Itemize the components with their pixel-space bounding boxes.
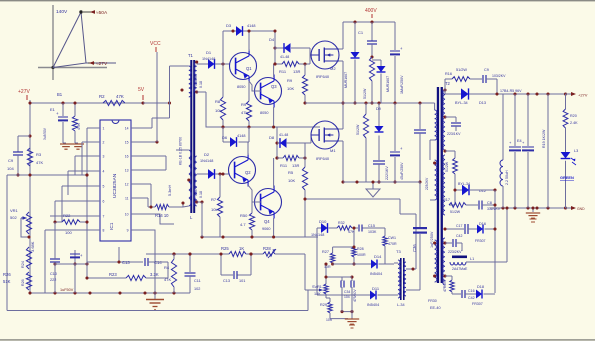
IC left pin wires	[87, 127, 92, 129]
svg-text:51K: 51K	[3, 279, 11, 284]
capacitor C snub lower	[445, 242, 452, 244]
resistor 51/2W upper	[369, 57, 374, 81]
capacitor electrolytic 1MuF/250V upper	[394, 22, 396, 50]
ground below E1	[60, 143, 72, 145]
T2 lower left winding	[435, 240, 437, 282]
output rail wire +17V	[445, 93, 566, 95]
svg-text:C11: C11	[194, 279, 201, 283]
resistor R2 47K	[103, 100, 125, 105]
diode D4 4148 pointing left	[284, 43, 291, 53]
capacitor E1 3u3/50V	[62, 103, 64, 116]
transistor Q2 8050	[229, 157, 256, 184]
svg-text:R8: R8	[215, 99, 221, 104]
svg-text:223/2KV: 223/2KV	[448, 250, 462, 254]
svg-text:104: 104	[7, 166, 14, 171]
capacitor C34 104	[326, 276, 342, 278]
svg-text:R2: R2	[99, 94, 105, 99]
resistor CW1 470R	[384, 228, 386, 236]
capacitor C1	[371, 22, 373, 41]
svg-text:D6: D6	[222, 135, 228, 140]
capacitor C24 223/1KV	[445, 116, 456, 118]
svg-text:4148: 4148	[247, 24, 255, 28]
diode D upper2 MUR1607	[372, 59, 381, 61]
svg-text:10k: 10k	[215, 108, 221, 113]
svg-text:10R: 10R	[324, 265, 331, 269]
wire outer feedback loop left	[6, 175, 8, 311]
svg-text:470R: 470R	[388, 242, 397, 246]
svg-text:3: 3	[103, 155, 105, 159]
svg-text:R9: R9	[241, 102, 247, 107]
svg-text:1u070: 1u070	[194, 76, 198, 86]
svg-text:D16: D16	[479, 222, 486, 226]
diode D2 1N4148	[202, 173, 208, 175]
T3 left winding	[398, 260, 400, 298]
svg-text:10k: 10k	[211, 207, 217, 212]
svg-text:T3: T3	[396, 249, 401, 254]
svg-text:223/2KV: 223/2KV	[425, 177, 429, 190]
svg-text:51/2W: 51/2W	[356, 124, 360, 135]
svg-text:1N4148: 1N4148	[200, 159, 213, 163]
resistor R22 100	[55, 221, 62, 223]
M2 source down	[339, 60, 343, 62]
svg-text:C8: C8	[487, 201, 492, 205]
svg-text:3.68K: 3.68K	[30, 241, 35, 252]
wire Q4 collector	[273, 158, 275, 188]
svg-text:8050: 8050	[237, 85, 245, 89]
T3 right winding	[404, 262, 406, 296]
capacitor C2 103/1KV column	[419, 103, 421, 129]
svg-text:R26: R26	[3, 272, 11, 277]
capacitor C36 1uF/250V	[419, 182, 421, 227]
svg-text:101: 101	[239, 279, 245, 283]
svg-text:+27V: +27V	[578, 93, 588, 98]
svg-text:1N4148: 1N4148	[311, 233, 324, 237]
svg-text:11: 11	[125, 197, 129, 201]
svg-text:D14: D14	[374, 254, 382, 259]
capacitor C8 332/2KV	[478, 201, 480, 210]
resistor R7 10k	[218, 172, 221, 175]
svg-text:E1: E1	[50, 107, 56, 112]
wire +27V to R2 horizontal	[30, 102, 143, 104]
svg-text:B1: B1	[57, 92, 63, 97]
resistor R23 3.3K	[86, 262, 88, 278]
resistor 51/2W lower	[365, 103, 367, 114]
svg-text:47K: 47K	[36, 160, 43, 165]
graph peak dot	[79, 10, 82, 13]
svg-text:100: 100	[65, 230, 72, 235]
svg-text:R22: R22	[63, 213, 71, 218]
svg-text:C16: C16	[468, 289, 475, 293]
svg-text:502: 502	[10, 215, 17, 220]
svg-text:4148: 4148	[237, 134, 245, 138]
transistor Q4 9060	[255, 189, 282, 216]
ground at bottom rail	[154, 293, 156, 300]
wire Q1 emitter to Q3 base	[249, 81, 261, 91]
resistor R4 47K	[172, 252, 175, 255]
transistor Q1 8050	[230, 53, 257, 80]
wire T3 right lower to C36	[406, 289, 420, 291]
svg-text:IN5404: IN5404	[370, 272, 382, 276]
svg-text:R23: R23	[109, 272, 117, 277]
diode D13 BYL-34	[461, 88, 469, 99]
svg-text:D1: D1	[206, 50, 212, 55]
resistor R10 10K	[304, 64, 306, 75]
svg-text:L1: L1	[470, 257, 474, 261]
svg-text:C13: C13	[122, 260, 130, 265]
resistor R18 51/2W	[453, 158, 458, 174]
svg-text:≈50A: ≈50A	[96, 10, 108, 16]
svg-text:R16: R16	[445, 72, 452, 76]
lower mid rail wire y182	[343, 181, 420, 183]
resistor R27 10R	[332, 247, 334, 253]
transformer T2 core	[437, 87, 439, 283]
svg-text:0.18: 0.18	[199, 191, 203, 198]
IC left pins	[92, 127, 100, 129]
svg-text:5.3mH: 5.3mH	[168, 185, 172, 196]
svg-text:R24: R24	[21, 261, 25, 268]
T1 secondary winding right bottom	[194, 156, 196, 206]
svg-text:2: 2	[103, 141, 105, 145]
wire top rail corner down to D4	[273, 46, 276, 49]
svg-text:51/2W: 51/2W	[450, 210, 461, 214]
svg-text:47k: 47k	[241, 110, 247, 115]
resistor R3 47K on main rail	[28, 134, 31, 137]
capacitor C9 104 branch	[18, 135, 30, 137]
resistor 3.68K	[26, 247, 31, 269]
svg-text:9060: 9060	[262, 227, 270, 231]
svg-text:13R: 13R	[292, 163, 299, 168]
svg-text:+27V: +27V	[18, 89, 30, 95]
wire Q2 collector	[247, 142, 249, 155]
resistor R17 51/2W	[454, 190, 456, 198]
diode D9 MUR1607 lower	[378, 103, 380, 126]
svg-text:7: 7	[103, 215, 105, 219]
graph diagonal trace	[53, 12, 81, 68]
svg-text:C17: C17	[456, 224, 462, 228]
svg-text:R14 10: R14 10	[155, 213, 169, 218]
svg-text:4.7: 4.7	[240, 222, 246, 227]
capacitor C9s	[482, 75, 484, 83]
svg-text:R32: R32	[338, 221, 345, 225]
graph arrow to 50A	[83, 11, 95, 13]
resistor 47K parallel	[74, 103, 76, 116]
svg-text:R27: R27	[322, 250, 329, 254]
wire R27 top row	[333, 246, 354, 248]
Q1 collector to top rail	[248, 31, 250, 51]
diode D12 BYL-34	[455, 189, 462, 191]
svg-text:8: 8	[103, 229, 105, 233]
wire IC bottom pin down	[118, 247, 120, 262]
M1 source down	[339, 140, 343, 142]
svg-text:15: 15	[125, 141, 129, 145]
diode D10 1N4148	[321, 223, 328, 233]
svg-text:Q3: Q3	[271, 84, 277, 89]
wire R28 to right loop	[275, 253, 305, 255]
bottom mid wire to ground	[330, 318, 348, 320]
top rail wire	[223, 30, 275, 32]
resistor R11 13R	[275, 63, 282, 65]
resistor R28 small	[263, 252, 275, 256]
T1 secondary winding right top	[194, 62, 196, 92]
lower wire y199	[305, 198, 400, 200]
svg-text:103K: 103K	[368, 230, 377, 234]
svg-text:D13: D13	[479, 101, 486, 105]
wire Q4 emitter down	[273, 218, 275, 237]
half-bridge mid rail wire	[305, 102, 432, 104]
svg-text:0.18: 0.18	[199, 81, 203, 88]
resistor R20 2.4K	[565, 94, 567, 109]
svg-text:Q4: Q4	[264, 219, 270, 224]
wire tap3 to R18	[445, 150, 455, 152]
wire C34 C30 bottoms row	[342, 311, 352, 313]
resistor R32 47K	[337, 226, 352, 230]
svg-text:R28: R28	[357, 247, 364, 251]
resistor R19 1K/2W	[547, 94, 549, 208]
wire loop to SVR column	[305, 289, 322, 291]
capacitor C10 222	[54, 264, 56, 293]
wire winding tap to mid rail	[197, 91, 206, 93]
svg-text:47K: 47K	[116, 94, 124, 99]
graph origin dot	[51, 66, 54, 69]
resistor R28b 100R	[353, 228, 355, 247]
svg-text:9: 9	[127, 229, 129, 233]
resistor R12 13R	[277, 157, 283, 159]
capacitor C30 475/50V	[351, 277, 353, 281]
svg-text:EE-40: EE-40	[430, 306, 441, 310]
svg-text:BYL-34: BYL-34	[458, 182, 470, 186]
svg-text:3u3/50V: 3u3/50V	[43, 127, 47, 140]
svg-text:45uF/250V: 45uF/250V	[400, 162, 404, 180]
capacitor C15 103	[358, 225, 360, 232]
svg-text:FR307: FR307	[475, 239, 486, 243]
wire feedback box top	[87, 261, 143, 263]
potentiometer VR1 502	[26, 212, 31, 234]
svg-text:C9: C9	[8, 158, 14, 163]
svg-text:MUR1607: MUR1607	[344, 72, 348, 88]
svg-text:M1: M1	[330, 148, 336, 153]
svg-text:R25: R25	[221, 246, 229, 251]
T2 aux winding left	[435, 160, 437, 200]
svg-text:C9: C9	[484, 68, 489, 72]
capacitor E2 electrolytic	[74, 250, 76, 264]
ground B	[345, 318, 359, 320]
diode D18 FR307	[476, 290, 482, 299]
svg-text:2A47MaE: 2A47MaE	[452, 267, 468, 271]
svg-text:D10: D10	[319, 219, 327, 224]
graph arrow to 27V	[88, 62, 95, 64]
diode D16 row C17/C42	[445, 228, 464, 230]
svg-text:R28: R28	[263, 246, 271, 251]
svg-text:L3: L3	[574, 149, 578, 153]
svg-text:17B4-R5 96V: 17B4-R5 96V	[500, 89, 522, 93]
capacitor E5 electrolytic 2	[527, 94, 529, 146]
svg-text:C13: C13	[223, 279, 230, 283]
svg-text:IN5404: IN5404	[367, 303, 379, 307]
svg-text:3.3K: 3.3K	[150, 272, 159, 277]
svg-text:41-48: 41-48	[279, 133, 288, 137]
svg-text:C42: C42	[468, 296, 475, 300]
svg-text:GREEN: GREEN	[560, 175, 574, 180]
svg-text:R19 1K/2W: R19 1K/2W	[542, 129, 546, 148]
wire into D10	[316, 228, 318, 237]
svg-text:T2: T2	[445, 81, 451, 86]
capacitor C11 102	[189, 254, 191, 272]
diode D14 IN5404	[371, 260, 377, 269]
svg-text:104: 104	[344, 295, 350, 299]
capacitor C16/C42	[452, 293, 461, 295]
svg-text:10: 10	[125, 213, 129, 217]
inductor L1 1A47MaE	[452, 256, 467, 259]
svg-text:D8: D8	[269, 135, 275, 140]
transistor Q3 8050	[255, 78, 282, 105]
IC right pin wires	[139, 127, 152, 129]
svg-text:KE-1B 0.25 80*60: KE-1B 0.25 80*60	[179, 137, 183, 165]
resistor R26 51K	[26, 272, 31, 290]
svg-text:D11: D11	[372, 286, 380, 291]
wire feedback box right	[167, 262, 169, 278]
svg-text:GND: GND	[577, 207, 585, 211]
svg-text:47K: 47K	[77, 123, 81, 130]
svg-text:L-34: L-34	[397, 303, 405, 307]
IC right pins	[131, 127, 139, 129]
T2 secondary winding right	[443, 90, 445, 150]
svg-text:+: +	[56, 111, 59, 116]
pot SVR1 14K	[325, 264, 327, 284]
svg-text:51/2W: 51/2W	[363, 88, 367, 99]
400V rail wire	[343, 21, 395, 23]
svg-text:2.2 50uH: 2.2 50uH	[505, 170, 509, 185]
wire emitter row up to R5 column	[304, 199, 306, 237]
wire mid rail corner to D8	[276, 127, 278, 158]
bottom border line	[0, 339, 595, 340]
svg-text:R3: R3	[36, 152, 42, 157]
svg-text:8050: 8050	[260, 111, 268, 115]
wire long bottom loop	[7, 310, 308, 312]
svg-text:103/2KV: 103/2KV	[492, 74, 506, 78]
top border line	[0, 0, 595, 1]
svg-text:R50: R50	[240, 213, 248, 218]
svg-text:IRF640: IRF640	[316, 156, 330, 161]
svg-text:D2: D2	[204, 152, 210, 157]
svg-text:140V: 140V	[56, 9, 68, 15]
svg-text:R29: R29	[320, 303, 327, 307]
transformer T1 core	[190, 60, 192, 213]
svg-text:R9: R9	[287, 78, 293, 83]
svg-text:M2: M2	[330, 66, 336, 71]
svg-text:VR1: VR1	[10, 208, 19, 213]
svg-text:D4: D4	[269, 37, 275, 42]
resistor R14 10	[149, 205, 152, 208]
emitter row wire y237	[202, 236, 318, 238]
svg-text:1N4148: 1N4148	[202, 57, 215, 61]
wire left pins column	[55, 263, 87, 265]
capacitor 222/1KV lower	[373, 160, 385, 162]
svg-text:4: 4	[103, 170, 105, 174]
IC U1 UC3825AN body	[100, 120, 131, 241]
svg-text:400V: 400V	[365, 8, 377, 14]
svg-text:BYL-34: BYL-34	[455, 101, 468, 105]
svg-text:C36: C36	[412, 244, 417, 252]
svg-text:1K: 1K	[239, 246, 244, 251]
wire 5V node to T1 column	[143, 102, 170, 104]
wire Q3 collector	[273, 64, 275, 77]
svg-text:100R: 100R	[357, 253, 366, 257]
diode D11 IN5404	[316, 237, 318, 295]
wire D4 junction down to R11 row	[274, 31, 276, 64]
svg-text:E4: E4	[517, 139, 522, 143]
svg-text:C42: C42	[456, 234, 462, 238]
wire VCC vertical	[156, 52, 158, 142]
svg-text:IC1: IC1	[109, 222, 115, 230]
svg-text:FR307: FR307	[472, 302, 483, 306]
svg-text:51/2W: 51/2W	[445, 161, 449, 172]
svg-text:R5: R5	[288, 170, 294, 175]
graph horizontal axis	[38, 67, 107, 69]
svg-text:16: 16	[125, 155, 129, 159]
svg-text:R20: R20	[570, 114, 577, 118]
diode D8 4148 pointing left	[280, 138, 287, 148]
svg-text:10K: 10K	[287, 86, 294, 91]
capacitor E4 electrolytic 1	[514, 94, 516, 146]
svg-text:D3: D3	[226, 23, 232, 28]
svg-text:Q1: Q1	[246, 66, 252, 71]
svg-text:≈27V: ≈27V	[96, 61, 108, 67]
svg-text:47R/2W: 47R/2W	[443, 279, 447, 292]
resistor R5 10K	[304, 158, 306, 167]
svg-text:IRF640: IRF640	[316, 74, 330, 79]
svg-text:13: 13	[125, 169, 129, 173]
diode D7 MUR1607 upper	[354, 22, 356, 52]
svg-text:Q2: Q2	[245, 170, 251, 175]
resistor R8 10k	[222, 31, 224, 97]
inductor L2 2.2 50uH	[502, 94, 504, 160]
wire D14 row	[333, 263, 371, 265]
svg-text:222: 222	[50, 278, 56, 282]
ground below 47K resistor	[72, 143, 84, 145]
svg-text:T1: T1	[188, 53, 194, 58]
bottom rail wire	[29, 292, 190, 294]
diode D6 4148	[222, 127, 224, 142]
T1 winding left bottom	[189, 150, 191, 206]
svg-text:5V: 5V	[138, 87, 145, 93]
wire Q2 emitter to Q4 base	[248, 185, 261, 202]
T2 primary winding	[432, 102, 435, 104]
svg-text:102: 102	[194, 287, 200, 291]
resistor R25 1K	[229, 251, 246, 256]
resistor R22 47R/2W	[445, 275, 452, 277]
svg-text:13R: 13R	[293, 69, 300, 74]
svg-text:D9: D9	[376, 107, 381, 111]
svg-text:14: 14	[125, 127, 129, 131]
svg-text:1MuF/250V: 1MuF/250V	[400, 75, 404, 94]
svg-text:R11: R11	[279, 69, 287, 74]
graph vertical axis	[52, 5, 54, 80]
svg-text:47K: 47K	[164, 277, 171, 282]
svg-text:1uF50V: 1uF50V	[60, 288, 74, 292]
graph spike trace	[53, 12, 86, 68]
svg-text:C15: C15	[368, 224, 375, 228]
svg-text:51/2W: 51/2W	[456, 68, 467, 72]
wire feedback row	[146, 253, 229, 255]
svg-text:C1: C1	[358, 30, 364, 35]
svg-text:6: 6	[103, 200, 105, 204]
MOSFET M2 IRF640	[311, 41, 339, 69]
capacitor electrolytic 45uF/250V lower	[394, 103, 396, 151]
ground triangle	[372, 182, 374, 189]
capacitor C13/C14	[144, 258, 146, 266]
wire Q3 emitter down	[273, 107, 275, 127]
T1 primary winding left top	[189, 66, 191, 97]
